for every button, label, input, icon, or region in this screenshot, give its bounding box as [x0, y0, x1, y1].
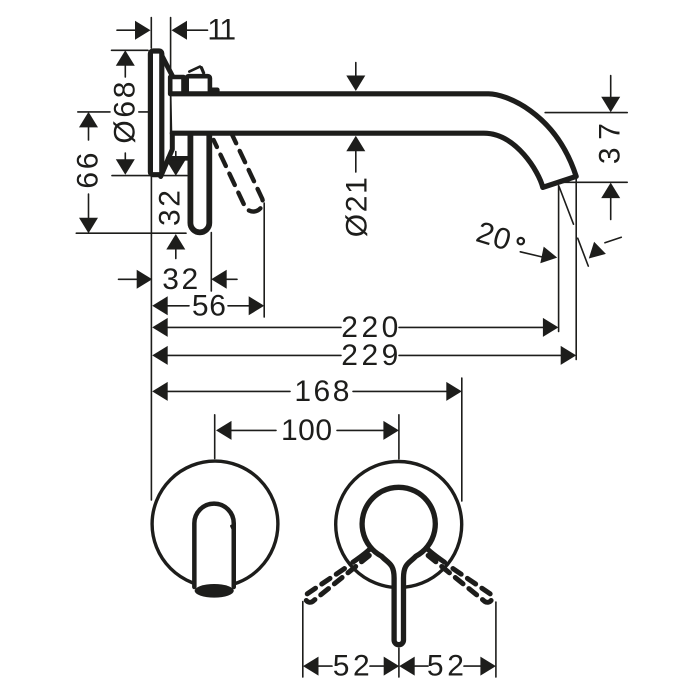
svg-text:11: 11	[207, 14, 235, 47]
dimension D68 : arrows	[116, 50, 135, 66]
dimension 37 : extension lines	[545, 76, 627, 220]
svg-text:100: 100	[281, 414, 332, 447]
dimension 11 : extension lines	[117, 18, 208, 75]
left lever end cap	[195, 584, 234, 598]
cartridge block 1	[170, 77, 183, 94]
handle alternate position (dashed)	[214, 132, 263, 212]
dimension 37 : arrows	[601, 97, 620, 113]
lower view: dimension 168 : extension line right	[461, 378, 463, 501]
dashed lever right	[428, 556, 492, 603]
dimension 37 : shafts	[610, 76, 612, 97]
dimension 11 : dimension line	[117, 29, 136, 31]
dimension 100 : arrows	[216, 421, 232, 440]
cartridge block 2	[187, 76, 210, 94]
left lever notch	[232, 526, 235, 533]
dimension 56 : extension line	[263, 203, 265, 317]
dimension D68 : shafts	[124, 66, 126, 77]
spout pipe	[172, 94, 577, 188]
dimension 66 : arrows	[79, 112, 98, 128]
dimension 229 : arrows	[152, 346, 168, 365]
dimension D68 : extension lines	[112, 50, 188, 175]
svg-text:168: 168	[294, 375, 349, 408]
handle hub below spout	[168, 156, 189, 161]
left lever (front view)	[194, 504, 233, 587]
spout outlet extension line V2 (229)	[575, 178, 577, 360]
20deg arrows	[540, 247, 557, 264]
wall plate (side view)	[150, 51, 161, 175]
dimension 168 : arrows	[152, 382, 168, 401]
right unit horn right	[427, 548, 445, 562]
dimension D21 : arrows	[346, 76, 365, 92]
left escutcheon (front view)	[152, 461, 278, 587]
svg-text:Ø68: Ø68	[108, 82, 141, 144]
dimension D21 : shafts	[355, 63, 357, 173]
dimension 168 : line	[168, 390, 447, 392]
escutcheon cone (side view)	[161, 56, 173, 177]
right unit horn left	[353, 548, 371, 562]
dimension 32 vertical : shafts	[175, 152, 177, 259]
water stream line 20deg	[559, 186, 588, 266]
dimension 229 : line	[168, 354, 561, 356]
dimension 100 : shafts	[232, 429, 277, 431]
dimension 220 : arrows	[152, 318, 168, 337]
handle (side view)	[190, 130, 209, 232]
right escutcheon (front view)	[336, 462, 462, 588]
20deg leader lines	[520, 252, 542, 257]
dimension 32 vertical : arrows	[166, 160, 185, 176]
dimension 66 : extension lines	[76, 112, 186, 233]
cartridge block 2 foot	[210, 90, 217, 95]
dimension 11 : arrows	[135, 21, 151, 40]
dimension 32 horizontal : extension line	[210, 233, 212, 292]
lever position indicator	[189, 67, 200, 72]
svg-text:56: 56	[192, 289, 226, 322]
dimension 66 : shafts	[88, 127, 90, 140]
svg-text:229: 229	[341, 339, 398, 372]
wall extension line (long, shared by 32/56/220/229/168)	[150, 177, 152, 501]
dimension 32 horizontal : arrows	[137, 270, 153, 289]
dimension 220 : line	[168, 326, 543, 328]
dimension 52+52 : extension lines	[303, 602, 496, 678]
dashed lever left	[305, 556, 369, 603]
dimension 32 horizontal : shafts	[119, 278, 238, 280]
spout outlet extension line V1 (220)	[558, 186, 560, 332]
dimension 56 : arrows	[152, 296, 168, 315]
dimension 100 : extension lines	[215, 415, 399, 459]
dimension 56 : shafts	[168, 305, 249, 307]
right handle ball, neck and shaft	[362, 487, 435, 644]
dimension 52+52 : shafts	[319, 665, 332, 667]
dimension 52+52 : arrows	[303, 657, 319, 676]
svg-text:Ø21: Ø21	[340, 177, 373, 237]
